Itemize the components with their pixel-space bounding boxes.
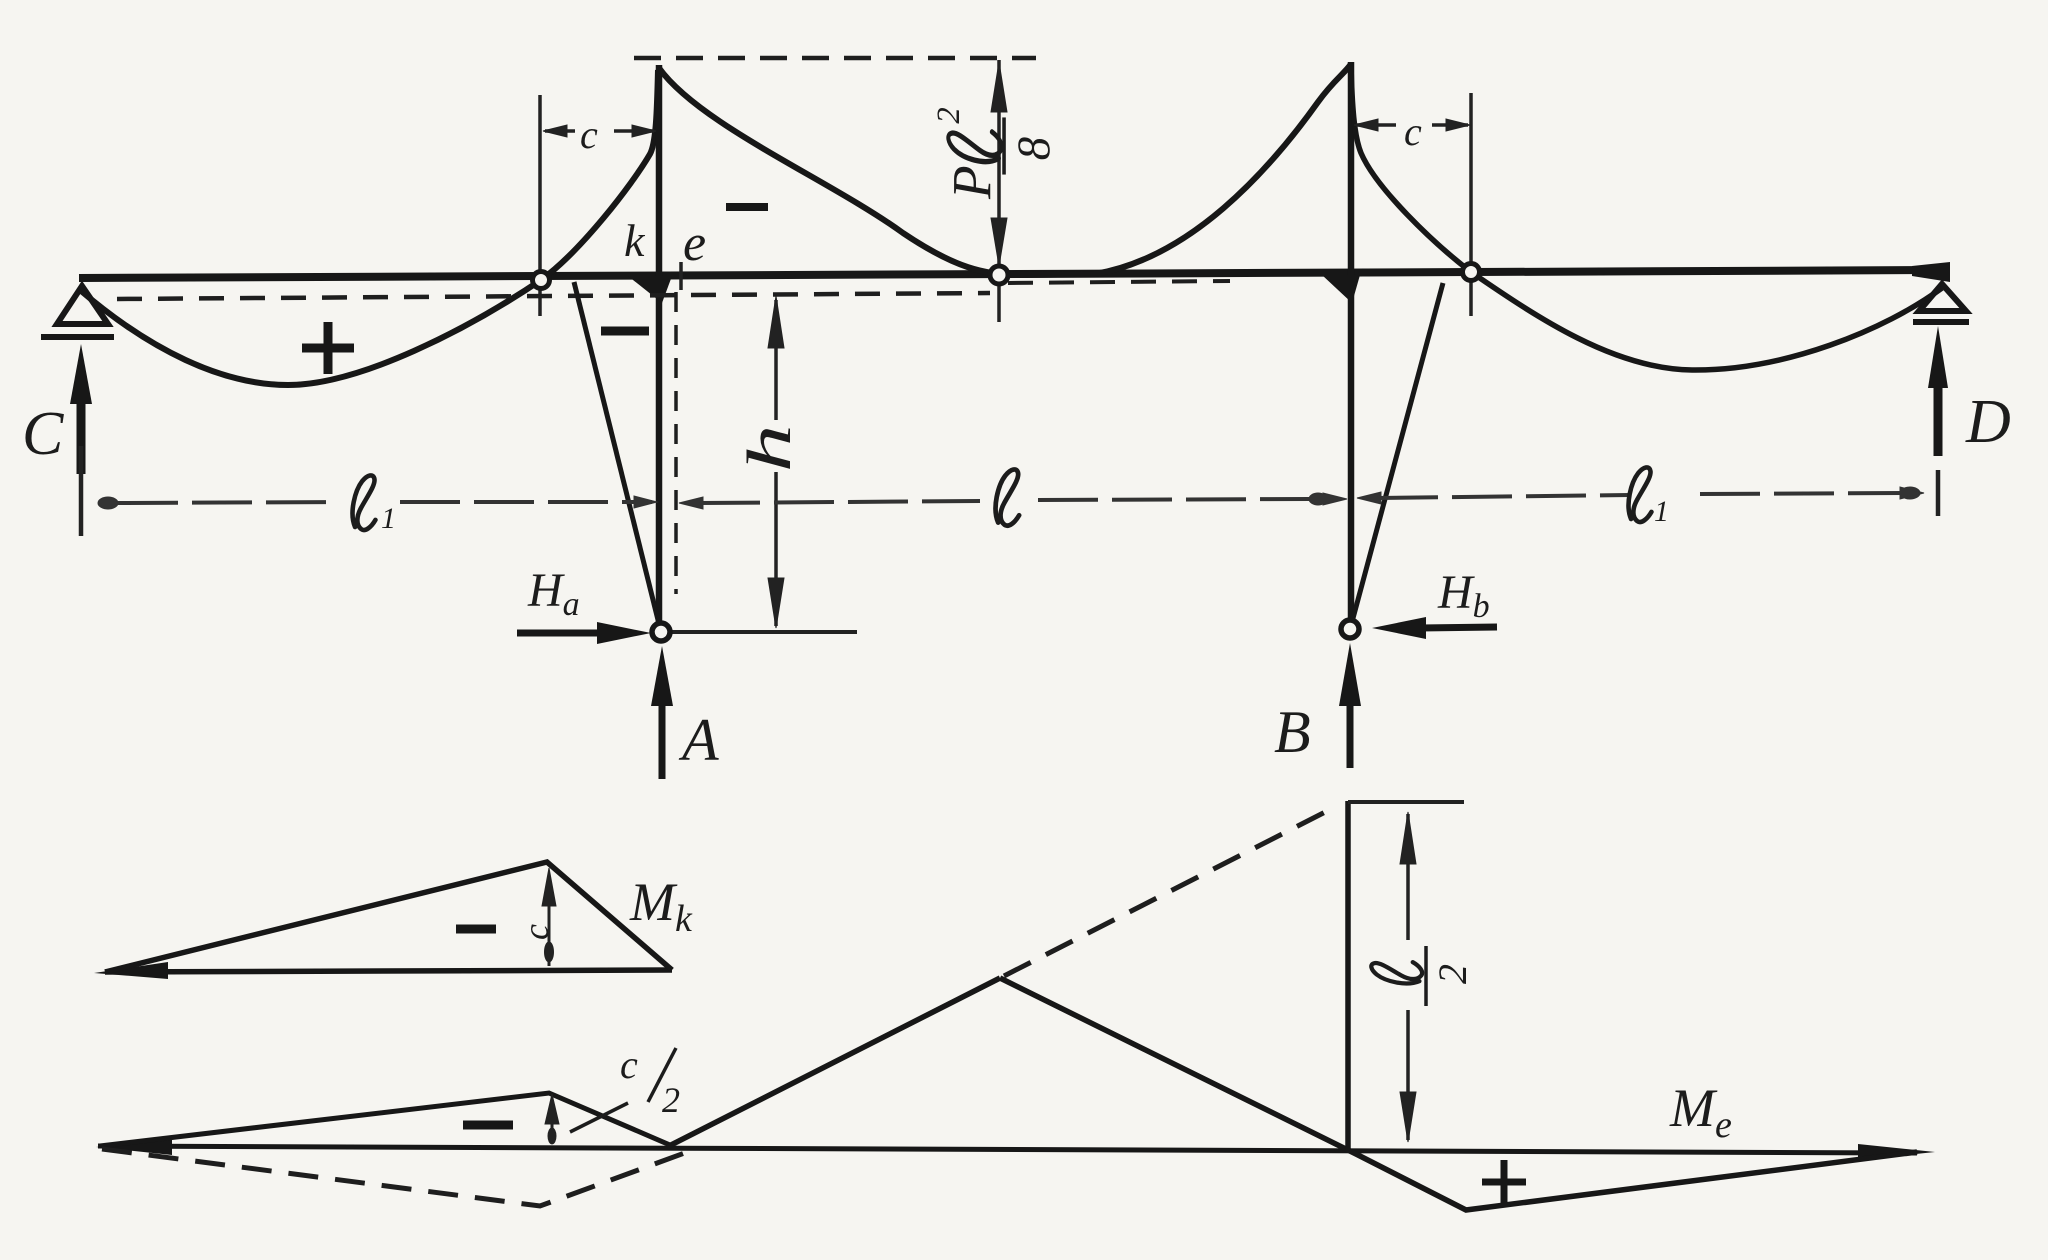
h dimension bbox=[663, 296, 857, 632]
dimension l1 right bbox=[1357, 487, 1924, 504]
svg-text:c: c bbox=[580, 112, 598, 157]
B ordinate vertical bbox=[1345, 801, 1351, 1150]
Me left triangle bbox=[100, 1093, 670, 1146]
H_b arrow bbox=[1372, 617, 1497, 639]
plus sign left span bbox=[302, 322, 354, 374]
junction fillet at B bbox=[1322, 275, 1360, 303]
left overhang moment parabola bbox=[80, 70, 658, 385]
reaction arrow C bbox=[70, 344, 92, 474]
Me dashed extension to B bbox=[1004, 806, 1337, 976]
top dashed closing line bbox=[634, 56, 1036, 61]
dimension l1 left bbox=[98, 496, 657, 509]
dashed vertical at A bbox=[674, 292, 678, 594]
Me rising line bbox=[667, 978, 1000, 1147]
reaction arrow B bbox=[1339, 643, 1361, 768]
minus Me left bbox=[463, 1121, 513, 1130]
reaction arrow D bbox=[1928, 326, 1948, 456]
c/2 dimension arrow bbox=[545, 1094, 559, 1144]
svg-text:c: c bbox=[516, 924, 556, 940]
Me dashed mirror triangle bbox=[102, 1149, 690, 1206]
Mk triangle sides bbox=[105, 862, 672, 972]
zero crossing circle middle bbox=[990, 266, 1008, 284]
hinge A bbox=[652, 623, 670, 641]
label h (rotated) bbox=[736, 424, 804, 472]
dimension c right bbox=[1354, 119, 1470, 131]
top tick at B ordinate bbox=[1348, 800, 1464, 804]
svg-text:1: 1 bbox=[1654, 495, 1669, 528]
right support D bbox=[1913, 284, 1969, 322]
l/2 dimension bbox=[1400, 812, 1416, 1142]
column B moment slant line bbox=[1352, 283, 1443, 622]
zero crossing circle right bbox=[1463, 93, 1480, 316]
svg-text:e: e bbox=[683, 215, 706, 272]
dimension c left bbox=[543, 125, 656, 137]
Mk dimension c arrow bbox=[542, 868, 556, 966]
svg-text:B: B bbox=[1274, 699, 1311, 765]
minus sign column A bbox=[601, 327, 649, 336]
label l middle bbox=[996, 469, 1020, 525]
beam line bbox=[79, 270, 1948, 278]
svg-text:2: 2 bbox=[1430, 964, 1475, 984]
column A moment slant line bbox=[574, 282, 660, 628]
Mk baseline bbox=[105, 970, 672, 972]
tick at e bbox=[679, 262, 683, 290]
Me falling line through baseline to right lobe bbox=[1000, 978, 1917, 1210]
P l2/8 dimension line bbox=[991, 60, 1007, 322]
reaction arrow A bbox=[651, 646, 673, 779]
middle span moment parabola bbox=[659, 64, 1351, 275]
svg-text:c: c bbox=[1404, 109, 1422, 154]
Me baseline bbox=[98, 1146, 1917, 1153]
label c rotated (Mk) bbox=[516, 924, 556, 940]
svg-text:c: c bbox=[620, 1042, 638, 1087]
dashed axis line under beam bbox=[117, 293, 990, 299]
junction fillet at A bbox=[628, 276, 672, 303]
plus Me right bbox=[1482, 1160, 1526, 1204]
svg-text:P: P bbox=[941, 165, 1002, 200]
svg-text:2: 2 bbox=[662, 1080, 680, 1120]
dimension row: right tick bbox=[1936, 470, 1941, 516]
svg-text:h: h bbox=[736, 424, 804, 472]
dimension row: left tick bbox=[79, 446, 84, 536]
beam right end blob bbox=[1912, 262, 1950, 282]
column B ordinate line bbox=[1348, 62, 1355, 627]
label l1 left bbox=[353, 475, 376, 530]
dimension l middle bbox=[679, 493, 1347, 509]
right overhang moment parabola bbox=[1351, 64, 1942, 370]
label l1 right bbox=[1629, 467, 1652, 522]
hinge B bbox=[1341, 620, 1359, 638]
svg-text:C: C bbox=[22, 400, 64, 468]
svg-text:1: 1 bbox=[381, 502, 396, 535]
zero crossing circle left bbox=[533, 95, 550, 316]
H_a arrow bbox=[517, 622, 651, 644]
svg-text:8: 8 bbox=[1008, 137, 1060, 160]
svg-text:2: 2 bbox=[931, 107, 967, 123]
label l/2 rotated bbox=[1371, 946, 1475, 1006]
left support C bbox=[41, 286, 114, 337]
svg-text:A: A bbox=[678, 707, 719, 773]
svg-text:k: k bbox=[624, 215, 646, 266]
minus Mk bbox=[456, 925, 496, 934]
svg-text:D: D bbox=[1965, 388, 2011, 456]
minus sign middle span bbox=[726, 203, 768, 211]
column A ordinate line bbox=[656, 65, 663, 628]
label P l2/8 (rotated fraction) bbox=[931, 107, 1060, 200]
